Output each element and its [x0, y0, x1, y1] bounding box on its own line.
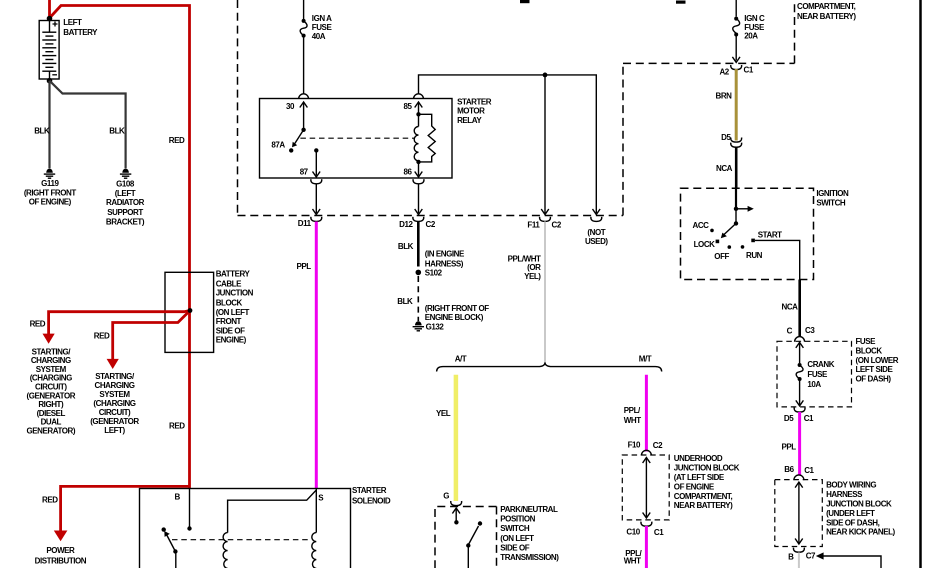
node battery negative junction — [47, 78, 53, 84]
svg-text:M/T: M/T — [639, 355, 652, 364]
body junction internal wire — [798, 482, 800, 544]
svg-text:OF ENGINE: OF ENGINE — [674, 482, 715, 491]
label C10 C1 — [626, 528, 664, 538]
svg-text:PPL: PPL — [782, 442, 797, 451]
svg-text:20A: 20A — [744, 32, 758, 41]
fuse CRANK 10A — [796, 363, 803, 381]
connector cup G — [451, 501, 462, 506]
fuse IGN C 20A — [733, 17, 740, 37]
svg-text:(OR: (OR — [527, 263, 541, 272]
label PPL/WHT (OR YEL) — [508, 254, 542, 281]
ignition switch dashed box — [681, 188, 814, 279]
svg-text:B: B — [788, 553, 794, 562]
svg-text:NEAR BATTERY): NEAR BATTERY) — [674, 501, 733, 510]
svg-text:HARNESS): HARNESS) — [425, 260, 464, 269]
svg-text:(ON LOWER: (ON LOWER — [856, 356, 899, 365]
node coil bottom — [416, 160, 420, 164]
svg-text:D5: D5 — [721, 133, 731, 142]
label G119 — [24, 179, 76, 207]
connector cup F11 — [540, 217, 551, 222]
ignition switch arm — [724, 223, 737, 235]
svg-text:NCA: NCA — [716, 164, 733, 173]
svg-text:SYSTEM: SYSTEM — [36, 365, 67, 374]
svg-text:RED: RED — [169, 136, 185, 145]
node relay pivot — [301, 128, 305, 132]
svg-text:FUSE: FUSE — [856, 337, 877, 346]
ignition arm arrowhead — [721, 233, 727, 239]
svg-text:PPL: PPL — [297, 262, 312, 271]
D12 arrow down — [415, 209, 423, 215]
label F10 C2 — [628, 441, 664, 451]
connector cup B/C7 — [793, 548, 804, 553]
connector dome C/C3 — [795, 337, 805, 342]
svg-text:C2: C2 — [653, 441, 663, 450]
park/neutral right edge — [496, 507, 498, 568]
label CRANK FUSE 10A — [807, 360, 834, 389]
svg-text:85: 85 — [404, 102, 413, 111]
svg-text:BLK: BLK — [109, 127, 125, 136]
svg-text:CHARGING: CHARGING — [95, 381, 135, 390]
wire RED branch to charging circuit right — [49, 311, 190, 335]
underhood junction internal arrow down — [643, 513, 651, 519]
node park/neutral arm bottom — [466, 543, 470, 547]
svg-text:D5: D5 — [784, 414, 794, 423]
svg-text:PARK/NEUTRAL: PARK/NEUTRAL — [500, 505, 558, 514]
wire pin 87 to D11 — [315, 184, 317, 213]
wire solenoid B contact — [189, 489, 191, 529]
label STARTER MOTOR RELAY — [457, 98, 492, 125]
label (RIGHT FRONT OF ENGINE BLOCK) G132 — [425, 304, 489, 332]
svg-text:G119: G119 — [41, 179, 59, 188]
pin 30 arrow up — [300, 102, 308, 108]
svg-text:(CHARGING: (CHARGING — [93, 399, 135, 408]
svg-text:C7: C7 — [806, 552, 816, 561]
svg-text:POSITION: POSITION — [500, 515, 535, 524]
svg-text:RED: RED — [42, 495, 58, 504]
svg-text:RED: RED — [30, 320, 46, 329]
arrowhead charging right — [43, 334, 55, 344]
svg-text:BRN: BRN — [716, 92, 733, 101]
svg-text:C2: C2 — [552, 221, 562, 230]
crank fuse arrow down — [796, 400, 804, 406]
label B C7 — [788, 552, 816, 562]
label PPL/ WHT upper — [624, 406, 641, 425]
svg-text:TRANSMISSION): TRANSMISSION) — [500, 553, 559, 562]
connector cup D5/C1 — [794, 408, 805, 413]
node 87A contact — [289, 148, 293, 152]
park/neutral arrow up — [452, 508, 460, 514]
wire crank fuse down — [799, 379, 801, 405]
svg-text:SIDE OF DASH,: SIDE OF DASH, — [826, 518, 879, 527]
A2 arrow down — [732, 57, 740, 63]
svg-text:JUNCTION: JUNCTION — [216, 289, 254, 298]
wire fuse to relay pin 30 — [303, 36, 305, 94]
wire pin 87 down — [315, 150, 317, 175]
label starting/charging system right — [27, 347, 76, 435]
fuse block arrow up — [796, 342, 804, 348]
arrowhead charging left — [107, 359, 119, 369]
wire YEL to park/neutral switch — [454, 375, 459, 501]
wire BLK battery negative to G108 — [50, 81, 126, 169]
F11 arrow down — [541, 209, 549, 215]
node ACC — [710, 229, 714, 233]
svg-text:SOLENOID: SOLENOID — [352, 497, 391, 506]
starter solenoid box — [140, 489, 351, 568]
wire relay feed bus horizontal — [419, 75, 597, 213]
solenoid coil left — [223, 533, 228, 568]
wire solenoid arm to motor — [175, 552, 177, 568]
svg-text:30: 30 — [286, 102, 295, 111]
svg-text:ENGINE BLOCK): ENGINE BLOCK) — [425, 313, 484, 322]
node battery positive junction — [47, 16, 53, 22]
svg-text:COMPARTMENT,: COMPARTMENT, — [674, 492, 733, 501]
node coil top — [416, 112, 420, 116]
NOT USED arrow down — [593, 209, 601, 215]
node ignition feed junction — [734, 207, 738, 211]
ground G108 — [120, 169, 131, 179]
svg-text:YEL): YEL) — [524, 272, 541, 281]
battery LEFT BATTERY — [39, 21, 59, 80]
svg-text:SWITCH: SWITCH — [500, 524, 530, 533]
svg-text:F11: F11 — [527, 221, 540, 230]
relay coil resistor branch — [419, 114, 436, 162]
svg-text:STARTER: STARTER — [352, 486, 387, 495]
svg-text:IGN C: IGN C — [744, 14, 765, 23]
wire BRN A2 to D5 — [735, 69, 738, 141]
svg-text:LOCK: LOCK — [694, 240, 716, 249]
svg-text:FUSE: FUSE — [312, 23, 333, 32]
svg-text:C1: C1 — [804, 414, 814, 423]
svg-text:A2: A2 — [719, 68, 729, 77]
node solenoid contact left — [162, 527, 166, 531]
svg-text:HARNESS: HARNESS — [826, 490, 863, 499]
svg-text:SUPPORT: SUPPORT — [107, 208, 143, 217]
wire RED from battery positive (top feed) — [48, 0, 51, 18]
split brace A/T M/T — [437, 362, 662, 371]
connector cup NOT USED — [591, 217, 602, 222]
svg-text:SIDE OF: SIDE OF — [216, 327, 245, 336]
svg-text:CHARGING: CHARGING — [31, 356, 71, 365]
solenoid coil right — [312, 533, 317, 568]
svg-text:BODY WIRING: BODY WIRING — [826, 481, 876, 490]
wire PPL/WHT gray F11 down to split — [544, 222, 546, 363]
label F11 C2 — [527, 221, 561, 230]
arrowhead power distribution — [54, 531, 68, 542]
label D5 C1 — [784, 414, 814, 423]
svg-text:FUSE: FUSE — [744, 23, 765, 32]
svg-text:IGN A: IGN A — [312, 14, 332, 23]
wire solenoid S branch — [228, 490, 317, 533]
connector dome pin 30 — [299, 94, 309, 99]
arm arrowhead — [292, 142, 297, 148]
svg-text:10A: 10A — [807, 380, 821, 389]
solenoid arm arrowhead — [164, 531, 170, 537]
wire PPL/WHT to F10 — [645, 375, 648, 452]
wire pin 86 down — [418, 162, 420, 176]
svg-text:F10: F10 — [628, 441, 641, 450]
node splice S102 — [416, 270, 422, 276]
wire solenoid S down — [315, 489, 317, 533]
svg-text:CIRCUIT): CIRCUIT) — [35, 383, 67, 392]
D11 arrow down — [313, 209, 321, 215]
svg-text:G132: G132 — [426, 323, 445, 332]
wire PPL/WHT below C10 — [645, 526, 648, 568]
node LOCK — [716, 240, 720, 244]
svg-text:DISTRIBUTION: DISTRIBUTION — [35, 557, 87, 566]
connector dome pin 85 — [414, 94, 424, 99]
pin 87 arrow down — [313, 172, 321, 178]
svg-text:(CHARGING: (CHARGING — [30, 374, 72, 383]
wire IGN A feed — [303, 0, 305, 19]
relay switch arm to 87A — [293, 130, 303, 146]
svg-text:STARTING/: STARTING/ — [95, 372, 135, 381]
battery cable junction block — [165, 272, 214, 352]
wire PPL crank fuse to B6 — [798, 412, 801, 475]
wire park/neutral G to contact — [455, 508, 457, 522]
svg-text:OFF: OFF — [714, 252, 729, 261]
svg-text:C10: C10 — [626, 528, 640, 537]
svg-text:BATTERY: BATTERY — [63, 28, 98, 37]
svg-text:NEAR KICK PANEL): NEAR KICK PANEL) — [826, 528, 895, 537]
node park/neutral contact — [454, 520, 458, 524]
wire ignition pivot — [735, 209, 737, 224]
svg-text:RED: RED — [169, 422, 185, 431]
wire BLK D12 to S102 — [417, 222, 420, 267]
node RUN — [741, 245, 745, 249]
svg-text:NEAR BATTERY): NEAR BATTERY) — [797, 12, 856, 21]
label PARK/NEUTRAL POSITION SWITCH — [500, 505, 559, 562]
page border right edge — [919, 0, 922, 568]
svg-text:BLK: BLK — [398, 242, 414, 251]
svg-text:JUNCTION BLOCK: JUNCTION BLOCK — [674, 464, 740, 473]
svg-text:C2: C2 — [426, 220, 436, 229]
underhood junction internal wire — [645, 458, 647, 519]
node feed bus junction — [543, 73, 548, 78]
svg-text:(DIESEL: (DIESEL — [37, 409, 66, 418]
wire BLK dashed S102 to G132 — [417, 276, 419, 321]
label IGN C FUSE 20A — [744, 14, 765, 41]
underhood fuse block dashed enclosure — [238, 0, 795, 216]
wire pin 86 to D12 — [418, 184, 420, 213]
node park/neutral arm top — [478, 521, 482, 525]
label POWER DISTRIBUTION — [35, 546, 87, 565]
node OFF — [728, 245, 732, 249]
svg-text:WHT: WHT — [624, 556, 641, 565]
svg-text:BATTERY: BATTERY — [216, 270, 251, 279]
svg-text:LEFT: LEFT — [63, 18, 82, 27]
body junction arrow down — [795, 539, 803, 545]
fuse block dashed box — [777, 341, 852, 407]
wire RED battery to main red bus — [50, 6, 190, 489]
svg-text:CRANK: CRANK — [807, 360, 834, 369]
connector cup pin 86 — [413, 179, 424, 184]
svg-text:OF ENGINE): OF ENGINE) — [29, 198, 72, 207]
label (NOT USED) — [585, 228, 608, 246]
svg-text:GENERATOR): GENERATOR) — [27, 427, 76, 436]
svg-text:RIGHT): RIGHT) — [38, 400, 64, 409]
svg-text:BRACKET): BRACKET) — [106, 217, 145, 226]
svg-text:CIRCUIT): CIRCUIT) — [99, 408, 131, 417]
svg-text:STARTING/: STARTING/ — [32, 347, 72, 356]
ignition branch arrowhead — [748, 206, 754, 212]
svg-text:SIDE OF: SIDE OF — [500, 543, 529, 552]
title remnant mark 2 — [676, 1, 686, 4]
svg-text:FUSE: FUSE — [807, 370, 828, 379]
svg-text:86: 86 — [404, 168, 413, 177]
svg-text:ENGINE): ENGINE) — [216, 336, 247, 345]
underhood junction block dashed box — [622, 455, 669, 520]
ground G119 — [44, 169, 55, 179]
svg-text:(GENERATOR: (GENERATOR — [27, 391, 76, 400]
body wiring harness junction block dashed box — [775, 480, 823, 547]
svg-text:UNDERHOOD: UNDERHOOD — [674, 454, 723, 463]
svg-text:START: START — [758, 230, 782, 239]
svg-text:YEL: YEL — [436, 409, 451, 418]
wire fuse to A2 — [735, 35, 737, 61]
svg-text:C: C — [787, 326, 793, 335]
svg-text:OF DASH): OF DASH) — [856, 375, 892, 384]
label (IN ENGINE HARNESS) S102 — [425, 250, 465, 278]
wire NCA D5 to ignition switch — [735, 147, 738, 190]
wire park/neutral arm down — [467, 546, 469, 568]
svg-text:IGNITION: IGNITION — [816, 189, 849, 198]
park/neutral switch arm — [469, 526, 479, 545]
wire BLK battery negative to G119 — [48, 81, 50, 169]
label A2 C1 — [719, 66, 753, 77]
connector dome F10 — [641, 450, 651, 455]
svg-text:RUN: RUN — [746, 251, 763, 260]
wire RED branch to charging circuit left — [113, 311, 190, 360]
svg-text:LEFT SIDE: LEFT SIDE — [856, 365, 894, 374]
label BODY WIRING HARNESS JUNCTION BLOCK — [826, 481, 895, 537]
svg-text:WHT: WHT — [624, 416, 641, 425]
svg-text:DUAL: DUAL — [41, 418, 62, 427]
svg-text:(ON LEFT: (ON LEFT — [216, 308, 250, 317]
svg-text:(NOT: (NOT — [587, 228, 605, 237]
connector cup C10 — [641, 522, 652, 527]
svg-text:STARTER: STARTER — [457, 98, 492, 107]
label D12 C2 — [399, 220, 436, 229]
solenoid switch arm — [167, 535, 176, 552]
label IGN A FUSE 40A — [312, 14, 333, 41]
svg-text:SWITCH: SWITCH — [816, 199, 846, 208]
wire pin 85 to coil — [418, 103, 420, 127]
label FUSE BLOCK — [856, 337, 899, 384]
label STARTER SOLENOID — [352, 486, 391, 506]
svg-text:JUNCTION BLOCK: JUNCTION BLOCK — [826, 500, 892, 509]
svg-text:C1: C1 — [804, 466, 814, 475]
connector cup A2 — [731, 65, 742, 70]
svg-text:BLOCK: BLOCK — [216, 298, 243, 307]
svg-text:NCA: NCA — [782, 302, 799, 311]
connector cup D5 lower — [731, 143, 742, 148]
starter motor relay box — [260, 99, 453, 179]
svg-text:COMPARTMENT,: COMPARTMENT, — [797, 2, 856, 11]
svg-text:RELAY: RELAY — [457, 116, 482, 125]
svg-text:A/T: A/T — [455, 355, 467, 364]
ground G132 — [413, 321, 424, 331]
svg-text:BLK: BLK — [34, 127, 50, 136]
label battery cable junction block — [216, 270, 254, 345]
connector cup D11 — [311, 217, 322, 222]
wire junction down to F11 — [544, 75, 546, 213]
wire NCA ignition to crank fuse — [798, 280, 801, 337]
svg-text:RADIATOR: RADIATOR — [106, 198, 145, 207]
wire IGN C feed — [735, 0, 737, 17]
label G108 — [106, 179, 145, 226]
pin 86 arrow down — [415, 172, 423, 178]
underhood junction internal arrow up — [643, 458, 651, 464]
svg-text:USED): USED) — [585, 237, 608, 246]
relay coil dashed actuator link — [300, 137, 414, 139]
label: fuse block location text (cut) — [797, 2, 856, 21]
svg-text:PPL/: PPL/ — [624, 406, 641, 415]
label PPL/ WHT lower — [624, 549, 643, 566]
node solenoid arm bottom — [173, 549, 177, 553]
svg-text:(GENERATOR: (GENERATOR — [90, 417, 139, 426]
arrowhead into C7 — [816, 552, 824, 559]
wire PPL D11 to starter solenoid S — [315, 222, 318, 489]
svg-text:ACC: ACC — [693, 221, 710, 230]
park/neutral position switch dashed box — [435, 507, 497, 568]
wire feedback from page edge to C7 — [822, 556, 881, 568]
wire WHT below C7 — [798, 553, 800, 568]
wire RED to power distribution — [61, 486, 190, 531]
svg-text:G108: G108 — [116, 179, 135, 188]
svg-text:(ON LEFT: (ON LEFT — [500, 534, 534, 543]
svg-text:C3: C3 — [805, 326, 815, 335]
wire to crank fuse — [799, 342, 801, 363]
svg-text:BLK: BLK — [397, 297, 413, 306]
svg-text:SYSTEM: SYSTEM — [99, 390, 130, 399]
svg-text:87: 87 — [300, 168, 309, 177]
svg-text:(RIGHT FRONT OF: (RIGHT FRONT OF — [425, 304, 489, 313]
connector dome B6 — [794, 475, 804, 480]
svg-text:40A: 40A — [312, 32, 326, 41]
svg-text:(IN ENGINE: (IN ENGINE — [425, 250, 465, 259]
relay coil winding — [414, 127, 418, 161]
svg-text:(UNDER LEFT: (UNDER LEFT — [826, 509, 875, 518]
connector cup pin 87 — [311, 179, 322, 184]
solenoid dashed actuator link — [172, 539, 312, 541]
svg-text:B: B — [175, 493, 181, 502]
label LEFT BATTERY — [63, 18, 98, 37]
svg-text:(AT LEFT SIDE: (AT LEFT SIDE — [674, 473, 725, 482]
node ignition pivot — [734, 221, 738, 225]
connector cup D12 — [413, 217, 424, 222]
label UNDERHOOD JUNCTION BLOCK — [674, 454, 740, 510]
node B contact — [187, 526, 191, 530]
svg-text:D12: D12 — [399, 220, 413, 229]
node START — [751, 239, 755, 243]
label C C3 — [787, 326, 816, 335]
pin 85 arrow up — [415, 102, 423, 108]
label IGNITION SWITCH — [816, 189, 849, 208]
wire START to fuse block — [755, 240, 800, 279]
svg-text:CABLE: CABLE — [216, 279, 242, 288]
ignition branch arrow right — [736, 208, 749, 210]
svg-text:MOTOR: MOTOR — [457, 107, 485, 116]
svg-text:G: G — [443, 491, 449, 500]
svg-text:87A: 87A — [271, 141, 285, 150]
svg-text:(LEFT: (LEFT — [115, 189, 136, 198]
svg-text:(RIGHT FRONT: (RIGHT FRONT — [24, 188, 76, 197]
svg-text:C1: C1 — [654, 528, 664, 537]
svg-text:B6: B6 — [784, 465, 794, 474]
svg-text:POWER: POWER — [46, 546, 75, 555]
label starting/charging system left — [90, 372, 139, 435]
wire pin 30 to pivot — [303, 103, 305, 130]
